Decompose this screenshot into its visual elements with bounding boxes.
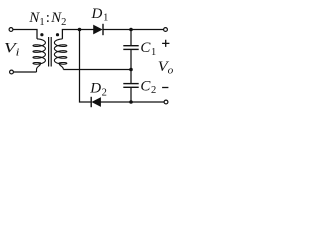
svg-text:N1:N2: N1:N2: [28, 10, 66, 28]
wire: D2 anode to bottom-right terminal: [101, 101, 165, 103]
wire: C2 bottom to bottom rail: [130, 88, 132, 102]
wire: mid node to C2 top: [130, 70, 132, 84]
svg-text:D1: D1: [91, 6, 109, 24]
svg-text:C1: C1: [140, 40, 156, 58]
svg-text:C2: C2: [140, 78, 156, 96]
node: secondary top / mid vertical junction: [78, 28, 82, 32]
transformer core: [48, 37, 50, 67]
transformer primary winding N1: [33, 39, 45, 72]
node: top rail / C1 junction: [129, 28, 133, 32]
svg-text:D2: D2: [89, 81, 107, 99]
wire: D1 cathode to top-right terminal: [103, 29, 164, 31]
label minus: [162, 87, 168, 89]
phase dot secondary: [56, 33, 59, 36]
wire: secondary top riser and top rail to D1: [62, 30, 93, 39]
svg-text:Vi: Vi: [4, 41, 20, 59]
label plus: [162, 40, 169, 47]
terminal: output bottom-right: [164, 100, 168, 104]
terminal: input bottom-left: [10, 70, 14, 74]
node: mid rail / capacitor midpoint: [129, 68, 133, 72]
wire: mid vertical from top rail down to bottom rail: [80, 30, 91, 103]
wire: C1 bottom to mid node: [130, 50, 132, 70]
capacitor C2: [123, 83, 138, 85]
wire: primary bottom to input bottom-left: [13, 71, 36, 73]
terminal: output top-right: [164, 28, 168, 32]
diode D1: [94, 25, 102, 33]
svg-text:Vo: Vo: [158, 59, 174, 77]
transformer secondary winding N2: [54, 39, 66, 70]
phase dot primary: [40, 33, 43, 36]
capacitor C1: [123, 45, 138, 47]
terminal: input top-left: [9, 28, 13, 32]
wire: C1 top lead: [130, 30, 132, 46]
node: bottom rail / C2 junction: [129, 100, 133, 104]
diode D2: [92, 98, 100, 106]
wire: top-left input to primary top: [13, 30, 37, 39]
wire: mid rail from secondary bottom to cap midpoint: [63, 69, 131, 71]
